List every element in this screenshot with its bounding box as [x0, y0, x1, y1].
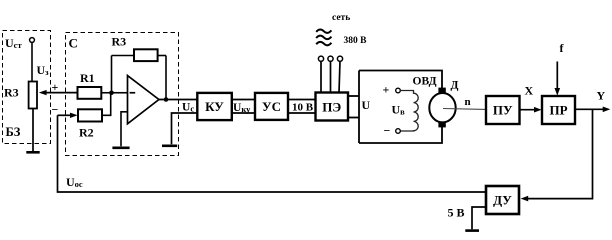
- svg-text:БЗ: БЗ: [6, 125, 21, 139]
- wire op-amp output to КУ: [159, 99, 198, 101]
- svg-text:КУ: КУ: [205, 99, 224, 114]
- block ПЭ: [316, 93, 349, 121]
- wire КУ to УС (bottom): [232, 112, 255, 114]
- wire summing node to op-amp input: [112, 92, 128, 94]
- wire R1 to summing node: [101, 92, 111, 94]
- wire КУ return to ground: [172, 113, 198, 144]
- wire armature top: [359, 71, 442, 89]
- svg-text:R3: R3: [4, 86, 19, 100]
- wire op-amp noninverting input to ground: [121, 112, 128, 147]
- svg-text:+: +: [383, 83, 390, 97]
- dashed box С (amplifier-comparator): [66, 33, 179, 156]
- wire Uос feedback: [58, 191, 487, 193]
- block ПУ: [486, 96, 520, 124]
- op-amp U1: [128, 76, 159, 124]
- svg-text:Uс: Uс: [182, 102, 194, 114]
- wire УС to ПЭ (top): [288, 99, 316, 101]
- wire УС to ПЭ (bottom): [288, 112, 316, 114]
- resistor R2: [78, 109, 102, 121]
- terminal Uст: [30, 38, 35, 43]
- block ДУ: [486, 186, 519, 214]
- wire ПЭ output stub top: [348, 95, 359, 97]
- svg-text:ПР: ПР: [549, 103, 567, 118]
- ground (5 В): [465, 229, 479, 232]
- wire phase C to ПЭ: [339, 61, 340, 92]
- svg-text:ПУ: ПУ: [493, 103, 513, 118]
- svg-text:Y: Y: [597, 89, 606, 103]
- svg-text:Д: Д: [451, 80, 459, 92]
- wire feedback top right: [158, 55, 166, 57]
- svg-text:ОВД: ОВД: [413, 76, 437, 88]
- svg-text:n: n: [465, 96, 471, 108]
- dashed box БЗ (setpoint unit): [3, 31, 51, 144]
- wire R3 bottom to ground: [32, 109, 34, 152]
- terminal field −: [396, 129, 401, 134]
- svg-text:ДУ: ДУ: [493, 193, 512, 208]
- ground (Uc return): [162, 145, 177, 148]
- svg-text:R2: R2: [79, 126, 94, 140]
- wire ПУ to ПР with arrow: [520, 107, 542, 113]
- svg-text:R3: R3: [112, 35, 127, 49]
- node output junction: [164, 97, 169, 102]
- wire Y branch to ДУ with arrow: [521, 109, 593, 201]
- terminal phase B: [328, 56, 333, 61]
- svg-text:X: X: [525, 84, 534, 98]
- wire f input arrow: [555, 62, 561, 96]
- node summing junction: [109, 90, 114, 95]
- block КУ: [197, 93, 232, 120]
- brush bottom: [438, 121, 445, 127]
- svg-text:380 В: 380 В: [344, 36, 368, 46]
- wire Uос vertical to R2: [57, 115, 59, 193]
- svg-text:ПЭ: ПЭ: [322, 100, 341, 115]
- ground (БЗ): [26, 151, 39, 154]
- wire 5 В input: [472, 207, 486, 229]
- svg-text:Uку: Uку: [233, 102, 251, 114]
- wire feedback right vertical: [165, 56, 167, 100]
- wire armature bus vertical: [358, 71, 360, 144]
- svg-text:УС: УС: [262, 99, 281, 114]
- op-amp inverting input mark −: [130, 92, 136, 94]
- brush top: [438, 88, 445, 94]
- field winding ОВД coil: [400, 91, 418, 132]
- svg-text:+: +: [52, 80, 59, 94]
- terminal phase A: [318, 56, 323, 61]
- svg-text:сеть: сеть: [332, 13, 350, 23]
- wire phase B to ПЭ: [330, 61, 332, 92]
- wire R2 to summing node: [102, 93, 111, 116]
- svg-text:−: −: [384, 124, 391, 138]
- wiper arrow wire (node Uз to R1): [39, 90, 78, 95]
- svg-text:5 В: 5 В: [448, 206, 465, 220]
- terminal field +: [396, 88, 401, 93]
- wire feedback top left: [112, 55, 135, 57]
- svg-text:10 В: 10 В: [292, 102, 314, 114]
- svg-text:С: С: [69, 36, 78, 51]
- wire КУ to УС (top): [232, 99, 255, 101]
- block ПР: [542, 96, 575, 124]
- resistor R3 (potentiometer body): [29, 82, 37, 109]
- AC mains symbol (three tildes): [316, 29, 331, 45]
- wire feedback left vertical: [111, 56, 113, 93]
- wire armature bottom: [359, 127, 442, 143]
- wire terminal to R3: [31, 43, 33, 82]
- svg-text:U: U: [362, 98, 371, 112]
- wire Y output with arrow: [575, 107, 610, 113]
- resistor R3 (feedback): [134, 49, 158, 61]
- wire ПЭ output stub bottom: [348, 117, 359, 119]
- wire phase A to ПЭ: [320, 61, 322, 92]
- svg-text:−: −: [52, 103, 59, 117]
- svg-text:R1: R1: [80, 71, 95, 85]
- ground (op-amp input): [112, 147, 129, 150]
- wire Uoc into R2 with arrow: [58, 113, 78, 118]
- motor Д (armature circle): [429, 93, 455, 122]
- resistor R1: [78, 87, 102, 99]
- shaft wire motor to ПУ: [443, 108, 486, 111]
- block УС: [255, 93, 288, 120]
- terminal phase C: [337, 56, 342, 61]
